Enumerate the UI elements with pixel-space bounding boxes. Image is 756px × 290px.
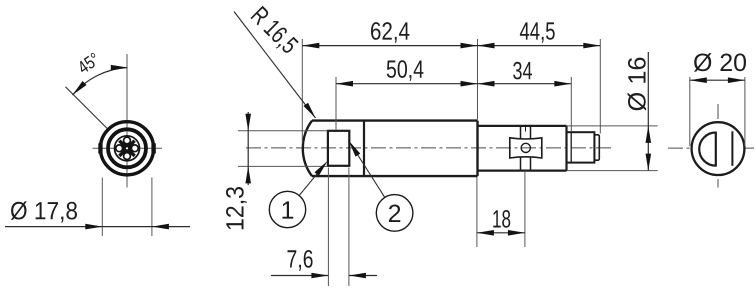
dia 20 arrow left xyxy=(690,77,707,83)
arrow arc top xyxy=(111,65,128,71)
step face xyxy=(476,121,478,177)
body outline bottom xyxy=(312,175,478,177)
label 18 xyxy=(493,210,510,228)
callout 2 leader xyxy=(351,144,385,198)
7,6 dimension line left part xyxy=(271,275,328,277)
cap joint line xyxy=(363,121,365,177)
small section bottom xyxy=(478,170,567,172)
centerline horizontal (right view) xyxy=(668,147,754,149)
connector outer ring (body + nut) xyxy=(100,122,153,175)
12,3 arrow bottom xyxy=(245,166,251,183)
50,4 arrow left xyxy=(336,81,353,87)
label dia 20 xyxy=(694,53,746,72)
callout 2 circle xyxy=(376,195,413,232)
clamp screw shaft left xyxy=(520,126,522,139)
keyway center hole xyxy=(126,147,128,149)
arrow arc bottom xyxy=(73,81,87,95)
18 arrow left xyxy=(477,230,494,236)
sensing face dome (R16,5) xyxy=(303,121,312,177)
62,4 arrow right xyxy=(461,43,478,49)
dia 17,8 dimension line xyxy=(5,226,190,228)
clamp barrel xyxy=(510,138,542,158)
34 extension line right xyxy=(570,77,572,132)
centerline vertical (left view, extends up as 45-deg reference) xyxy=(126,54,128,188)
7,6 dimension line right part xyxy=(349,275,377,277)
18 dimension line xyxy=(477,232,525,234)
7,6 extension line right xyxy=(348,168,350,287)
callout 1 leader xyxy=(299,166,324,197)
label dia 16 xyxy=(628,58,647,111)
connector insert ring xyxy=(115,136,140,161)
12,3 dimension line xyxy=(247,112,249,185)
pin bottom xyxy=(124,153,131,160)
dia 17,8 extension line left xyxy=(101,178,103,237)
connector side tab left xyxy=(98,143,102,153)
label R 16,5 xyxy=(248,6,299,57)
44,5 arrow left xyxy=(478,43,495,49)
34 arrow left xyxy=(478,81,495,87)
44,5 arrow right xyxy=(583,43,600,49)
clamp screw shaft right xyxy=(530,126,532,139)
small section top xyxy=(478,125,567,127)
callout 1 arrow xyxy=(315,161,328,176)
label 34 xyxy=(513,62,532,80)
label 50,4 xyxy=(387,60,424,81)
pin top xyxy=(124,137,131,144)
dia 17,8 extension line right xyxy=(151,178,153,237)
7,6 arrow left xyxy=(311,273,328,279)
body outline top xyxy=(312,119,478,121)
connector knurled ring xyxy=(108,129,146,167)
rear keyway D flat xyxy=(715,132,717,167)
clamp screw slot xyxy=(525,126,527,132)
rear outer circle dia 20 xyxy=(692,122,745,175)
centerline horizontal (left view) xyxy=(93,147,163,149)
label 62,4 xyxy=(371,22,409,43)
label 44,5 xyxy=(520,22,555,42)
rear keyway D half-disc arc xyxy=(699,133,716,166)
50,4 extension line left xyxy=(335,77,337,130)
dia 20 extension line left xyxy=(689,77,691,146)
dia 16 arrow bottom xyxy=(646,154,652,171)
thread section outline xyxy=(567,132,595,162)
sensing element rectangle xyxy=(328,131,349,166)
7,6 arrow right xyxy=(349,273,366,279)
rear connector flat line xyxy=(731,131,733,166)
center keyway cross xyxy=(112,133,143,164)
label 12,3 xyxy=(226,187,247,229)
dia 20 dimension line xyxy=(690,79,745,81)
44,5 extension line right xyxy=(599,39,601,134)
R 16,5 leader line xyxy=(234,12,316,119)
dia 20 arrow right xyxy=(728,77,745,83)
label dia 17,8 xyxy=(11,201,77,222)
62,4 arrow left xyxy=(302,43,319,49)
12,3 extension line top xyxy=(238,130,328,132)
50,4 arrow right xyxy=(461,81,478,87)
12,3 arrow top xyxy=(245,114,251,131)
pin left xyxy=(116,145,123,152)
62,4 extension line left xyxy=(301,39,303,143)
dia 17,8 arrow left xyxy=(85,224,102,230)
dia 16 extension line bottom xyxy=(567,170,658,172)
pin right xyxy=(131,145,138,152)
dia 16 dimension line xyxy=(647,52,649,171)
12,3 extension line bottom xyxy=(238,165,328,167)
connector side tab right xyxy=(151,143,155,153)
7,6 extension line left xyxy=(327,168,329,287)
callout 1 number xyxy=(283,201,294,218)
18 arrow right xyxy=(508,230,525,236)
dia 20 extension line right xyxy=(744,77,746,146)
dia 16 arrow top xyxy=(646,126,652,143)
18 extension line right xyxy=(524,172,526,247)
dia 17,8 arrow right xyxy=(152,224,169,230)
centerline vertical (right view) xyxy=(717,104,719,188)
callout 2 number xyxy=(389,205,400,223)
45 deg reference line xyxy=(66,87,108,129)
label 7,6 xyxy=(288,250,313,271)
connector end cap xyxy=(594,135,599,160)
label 45 degrees xyxy=(76,52,100,74)
keyway hub disc xyxy=(123,144,132,153)
50,4 / 34 dimension line xyxy=(336,83,571,85)
62,4 / 44,5 dimension line xyxy=(302,45,600,47)
R 16,5 leader arrow xyxy=(304,103,316,118)
45 deg dimension arc xyxy=(73,68,128,96)
62,4 / 44,5 extension line middle xyxy=(477,39,479,120)
18 extension line left xyxy=(476,177,478,247)
callout 1 circle xyxy=(269,191,305,227)
clamp screw hole xyxy=(521,143,530,152)
dia 16 extension line top xyxy=(567,125,658,127)
34 arrow right xyxy=(554,81,571,87)
callout 2 arrow xyxy=(349,141,361,157)
small section end face xyxy=(565,126,567,171)
centerline side view xyxy=(246,147,612,149)
thread flange line xyxy=(570,132,572,162)
